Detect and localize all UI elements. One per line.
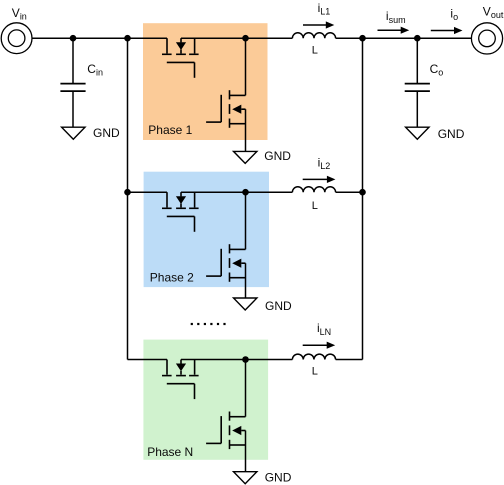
transistor Q1 high-side body contact [176,53,186,55]
wire Q2N low-side drain from switch node [245,360,247,417]
inductor L phase2 [292,187,335,192]
transistor Q1 high-side gate lead [194,62,196,77]
svg-text:Co: Co [430,62,444,78]
transistor Q2N low-side drain connection [230,416,246,418]
transistor Q4 low-side drain connection [230,248,246,250]
Phase N highlight box [143,340,268,460]
svg-text:GND: GND [438,127,465,141]
ground Cin [62,127,85,139]
transistor Q3 high-side body arrow [176,196,186,204]
transistor Q2 low-side gate bar [220,95,222,122]
svg-text:L: L [312,366,318,378]
transistor Q4 low-side channel segment middle [229,258,231,268]
node Cin tap junction [70,35,77,42]
transistor Q2 low-side body link [241,108,245,110]
inductor L phase1 [292,33,335,38]
transistor Q2N-1 high-side gate lead [194,384,196,399]
arrow isum [378,29,403,31]
svg-text:isum: isum [386,9,406,25]
wire phase2 inductor to bus [336,191,363,193]
transistor Q2N-1 high-side drain contact [162,375,172,377]
svg-text:iL1: iL1 [318,1,331,17]
transistor Q2 low-side channel segment bottom [229,119,231,128]
svg-text:GND: GND [265,470,292,484]
transistor Q3 high-side body contact [176,207,186,209]
transistor Q2 low-side drain connection [230,94,246,96]
transistor Q2 low-side gate lead [206,121,221,123]
transistor Q3 high-side drain contact [162,207,172,209]
transistor Q2 low-side channel segment top [229,90,231,99]
transistor Q2N low-side channel segment middle [229,425,231,435]
wire bus to phase2 high-side [128,191,168,193]
ground phase N [234,472,257,484]
transistor Q4 low-side gate bar [220,249,222,276]
Phase 2 highlight box [144,172,269,287]
transistor Q2 low-side source connection [230,123,246,125]
ground phase 2 [234,298,257,310]
capacitor Cin plates [60,83,85,85]
svg-text:iLN: iLN [317,321,331,337]
capacitor Co plates [405,83,430,85]
ground Co [406,127,429,139]
transistor Q1 high-side body stub [180,50,182,54]
ground phase 1 [234,151,257,163]
capacitor Co lead bottom [416,91,418,127]
transistor Q2N low-side body arrow [232,426,241,435]
transistor Q1 high-side source contact [189,53,199,55]
transistor Q2N-1 high-side source stub [194,360,196,375]
wire Vin to phase1 high-side drain [32,37,167,39]
wire phase1 node to inductor [246,37,293,39]
transistor Q3 high-side source contact [189,207,199,209]
Phase 1 highlight box [143,23,268,140]
wire phase1 switch node top [181,37,246,39]
transistor Q2N-1 high-side body stub [180,371,182,375]
wire phase1 inductor to bus [336,37,363,39]
node phase1 switch junction [242,35,249,42]
svg-text:Phase 2: Phase 2 [150,270,194,284]
transistor Q1 high-side source stub [194,38,196,53]
transistor Q3 high-side body stub [180,204,182,208]
arrow iL1 [303,24,327,26]
transistor Q2N-1 high-side body lead [180,360,182,364]
arrow iLN [303,344,329,346]
transistor Q3 high-side gate bar [167,215,195,217]
terminal Vin outer circle [1,23,32,54]
wire phaseN inductor to bus [336,359,363,361]
svg-text:Vin: Vin [12,6,27,22]
capacitor Cin lead bottom [72,91,74,127]
transistor Q2N low-side source connection [230,444,246,446]
svg-text:GND: GND [93,126,120,140]
transistor Q4 low-side gate lead [206,275,221,277]
wire Co node to Vout [417,37,471,39]
transistor Q2N-1 high-side drain stub [166,360,168,375]
node phaseN switch junction [242,356,249,363]
wire Q2 low-side drain from switch node [245,38,247,95]
transistor Q4 low-side source connection [230,277,246,279]
transistor Q1 high-side body lead [180,38,182,42]
transistor Q2N-1 high-side body arrow [176,364,186,372]
wire right output bus [362,38,364,359]
transistor Q2N low-side gate lead [206,442,221,444]
ellipsis between phases [191,323,193,325]
transistor Q3 high-side body lead [180,192,182,196]
transistor Q2N low-side channel segment bottom [229,440,231,449]
transistor Q3 high-side drain stub [166,192,168,207]
wire bus to phaseN high-side [128,359,168,361]
terminal Vout outer circle [471,23,502,54]
transistor Q2N low-side channel segment top [229,412,231,421]
inductor L phaseN [292,354,335,359]
transistor Q2N-1 high-side source contact [189,375,199,377]
node left bus phase2 junction [124,189,131,196]
wire phaseN switch node top [181,359,246,361]
wire Q4 low-side source to ground [245,263,247,298]
wire phaseN node to inductor [246,359,293,361]
wire phase2 switch node top [181,191,246,193]
svg-text:io: io [450,7,458,23]
capacitor Cin lead top [72,38,74,83]
capacitor Co lead top [416,38,418,83]
node phase2 switch junction [242,189,249,196]
svg-text:Phase N: Phase N [147,445,193,459]
transistor Q2 low-side channel segment middle [229,104,231,114]
node right bus phase2 junction [359,189,366,196]
transistor Q1 high-side drain stub [166,38,168,53]
transistor Q3 high-side gate lead [194,216,196,231]
transistor Q2N-1 high-side body contact [176,375,186,377]
terminal Vout inner circle [479,30,496,47]
transistor Q2N-1 high-side gate bar [167,383,195,385]
wire phase2 node to inductor [246,191,293,193]
wire bus to Co node [363,37,418,39]
transistor Q4 low-side channel segment top [229,244,231,253]
transistor Q3 high-side source stub [194,192,196,207]
wire Q2 low-side source to ground [245,109,247,151]
node Co tap junction [414,35,421,42]
transistor Q2N low-side body link [241,430,245,432]
terminal Vin inner circle [8,30,25,47]
svg-text:GND: GND [264,149,291,163]
transistor Q1 high-side body arrow [176,42,186,50]
node right bus top junction [359,35,366,42]
svg-text:Vout: Vout [483,4,504,20]
arrow iL2 [303,178,329,180]
transistor Q2N low-side gate bar [220,416,222,443]
svg-text:L: L [312,45,318,57]
node input bus junction [124,35,131,42]
transistor Q2 low-side body arrow [232,105,241,114]
svg-text:Phase 1: Phase 1 [148,123,192,137]
svg-text:GND: GND [265,299,292,313]
transistor Q4 low-side body arrow [232,259,241,268]
transistor Q1 high-side drain contact [162,53,172,55]
arrow io [431,30,456,32]
transistor Q4 low-side channel segment bottom [229,273,231,282]
wire left input bus [127,38,129,359]
svg-text:L: L [312,200,318,212]
transistor Q4 low-side body link [241,262,245,264]
wire Q2N low-side source to ground [245,431,247,472]
svg-text:Cin: Cin [87,62,103,78]
wire Q4 low-side drain from switch node [245,192,247,249]
svg-text:iL2: iL2 [318,155,331,171]
transistor Q1 high-side gate bar [167,61,195,63]
